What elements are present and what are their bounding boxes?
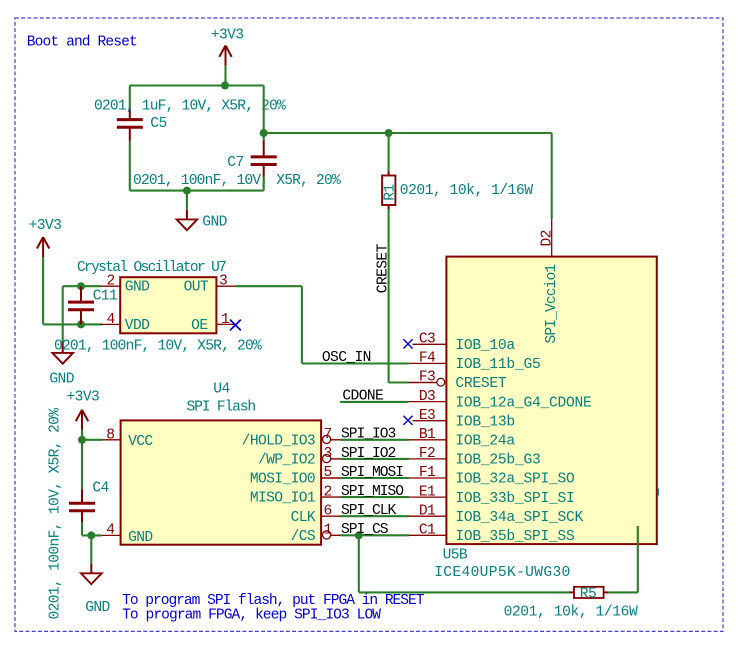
svg-text:+3V3: +3V3 (211, 28, 244, 44)
capacitor C4 (69, 503, 95, 511)
svg-text:1: 1 (324, 523, 333, 539)
svg-text:CDONE: CDONE (342, 388, 383, 404)
ground symbol (U4) (81, 573, 102, 584)
wire left vertical to C5 top (129, 86, 131, 108)
junction +3V3 / top wire (221, 82, 229, 90)
svg-text:2: 2 (324, 484, 332, 500)
U4 pin 1 /CS (323, 531, 331, 539)
svg-text:MISO_IO1: MISO_IO1 (250, 491, 316, 507)
FPGA pin D2 (551, 219, 553, 257)
svg-text:4: 4 (107, 312, 116, 328)
wire up into FPGA bottom (637, 526, 639, 592)
svg-text:2: 2 (107, 274, 115, 290)
capacitor C11 leads (80, 286, 82, 302)
FPGA pin F3 CRESET (409, 382, 437, 384)
resistor R5 (570, 591, 575, 593)
wire +3V3 to VCC rail (81, 430, 83, 440)
svg-text:IOB_24a: IOB_24a (455, 434, 515, 450)
FPGA pin F4 IOB_11b_G5 (409, 362, 447, 364)
svg-text:IOB_25b_G3: IOB_25b_G3 (455, 453, 540, 469)
FPGA pin E1 IOB_33b_SPI_SI (409, 496, 447, 498)
svg-text:OSC_IN: OSC_IN (322, 350, 371, 366)
capacitor C7 leads (263, 141, 265, 157)
wire +3V3 down to VDD rail (42, 257, 44, 324)
power symbol +3V3 (U4) (76, 410, 88, 430)
wire OSC_IN to FPGA F4 (302, 362, 409, 364)
FPGA pin C3 IOB_10a (413, 343, 447, 345)
junction SPI_CS / R5 branch (355, 531, 363, 539)
capacitor C4 leads (81, 490, 83, 504)
svg-text:SPI_IO2: SPI_IO2 (341, 446, 396, 462)
svg-text:/HOLD_IO3: /HOLD_IO3 (242, 433, 315, 449)
wire SPI net row C1 (340, 534, 408, 536)
wire GND pin2 horizontal (63, 285, 101, 287)
svg-text:Crystal Oscillator U7: Crystal Oscillator U7 (77, 260, 226, 276)
svg-text:U5B: U5B (443, 548, 468, 564)
junction GND stem / bottom rail (183, 187, 191, 195)
FPGA pin E3 IOB_13b (413, 420, 447, 422)
wire SPI net row F2 (340, 458, 408, 460)
wire R5 to right vertical (608, 591, 637, 593)
svg-text:OUT: OUT (184, 280, 209, 296)
svg-text:+3V3: +3V3 (29, 218, 62, 234)
wire C5 bottom to bottom rail (129, 141, 131, 191)
svg-text:3: 3 (324, 446, 332, 462)
U4 pin 2 MISO_IO1 (321, 496, 341, 498)
svg-text:C4: C4 (92, 480, 109, 496)
svg-text:D1: D1 (419, 503, 436, 519)
wire C4 top lead (81, 440, 83, 490)
svg-text:D3: D3 (419, 389, 435, 405)
svg-text:R1: R1 (383, 184, 399, 201)
svg-text:0201, 100nF, 10V, X5R, 20%: 0201, 100nF, 10V, X5R, 20% (54, 339, 262, 355)
svg-text:IOB_35b_SPI_SS: IOB_35b_SPI_SS (455, 529, 575, 545)
svg-text:F1: F1 (419, 465, 436, 481)
svg-text:To program FPGA, keep SPI_IO3: To program FPGA, keep SPI_IO3 LOW (122, 607, 381, 623)
U4 pin 5 MOSI_IO0 (321, 477, 341, 479)
capacitor C5 leads (129, 107, 131, 119)
svg-text:F3: F3 (419, 370, 435, 386)
FPGA pin C1 IOB_35b_SPI_SS (409, 534, 447, 536)
svg-text:3: 3 (219, 274, 227, 290)
wire +3V3 stem to node (224, 66, 226, 86)
svg-text:7: 7 (324, 427, 332, 443)
FPGA pin B1 IOB_24a (409, 439, 447, 441)
svg-text:VDD: VDD (125, 318, 150, 334)
svg-text:8: 8 (106, 427, 114, 443)
FPGA pin F1 IOB_32a_SPI_SO (409, 477, 447, 479)
svg-text:C11: C11 (93, 288, 118, 304)
svg-text:E3: E3 (419, 408, 435, 424)
capacitor C5 (117, 120, 143, 128)
junction C11 bottom / VDD wire (77, 320, 85, 328)
wire to FPGA pin D2 (551, 133, 553, 219)
svg-text:IOB_12a_G4_CDONE: IOB_12a_G4_CDONE (455, 395, 591, 411)
wire main horizontal CRESET rail (264, 132, 552, 134)
wire C7 bottom to bottom rail (263, 177, 265, 191)
svg-text:C7: C7 (227, 155, 243, 171)
junction C7 / main horizontal wire (260, 129, 268, 137)
U4 pin 4 GND (102, 534, 121, 536)
oscillator U7 body (120, 277, 216, 333)
svg-text:ICE40UP5K-UWG30: ICE40UP5K-UWG30 (434, 565, 570, 581)
no-connect X on U7 OE (230, 320, 241, 331)
svg-text:+3V3: +3V3 (67, 390, 100, 406)
svg-text:IOB_13b: IOB_13b (455, 414, 515, 430)
FPGA pin F2 IOB_25b_G3 (409, 458, 447, 460)
svg-text:B1: B1 (419, 427, 436, 443)
svg-text:GND: GND (125, 280, 150, 296)
svg-text:0201, 100nF, 10V, X5R, 20%: 0201, 100nF, 10V, X5R, 20% (47, 408, 63, 620)
svg-text:R5: R5 (580, 586, 596, 602)
svg-text:GND: GND (85, 600, 110, 616)
svg-text:IOB_33b_SPI_SI: IOB_33b_SPI_SI (455, 491, 574, 507)
SPI flash U4 body (121, 420, 322, 544)
junction C11 top / pin2 wire (77, 282, 85, 290)
no-connect X on FPGA C3 (403, 339, 412, 348)
svg-text:D2: D2 (539, 230, 555, 246)
resistor R1 (388, 172, 390, 177)
power symbol +3V3 (oscillator) (37, 237, 49, 257)
wire OSC_IN vertical (301, 286, 303, 363)
FPGA pin D1 IOB_34a_SPI_SCK (409, 515, 447, 517)
junction C4 top / VCC wire (78, 436, 86, 444)
U7 pin 2 GND (101, 285, 120, 287)
svg-text:1: 1 (221, 312, 230, 328)
svg-text:SPI_CLK: SPI_CLK (341, 503, 397, 519)
wire top horizontal C5-C7 (130, 84, 264, 86)
svg-text:MOSI_IO0: MOSI_IO0 (250, 472, 315, 488)
svg-text:CLK: CLK (291, 510, 316, 526)
wire GND stem (186, 191, 188, 211)
wire SPI net row F1 (340, 477, 408, 479)
U4 pin 6 CLK (321, 515, 341, 517)
wire SPI net row B1 (340, 439, 408, 441)
wire bottom horizontal to R5 (359, 591, 570, 593)
ground symbol (top loop) (177, 219, 198, 230)
wire right vertical to C7 (263, 86, 265, 142)
svg-text:SPI_MOSI: SPI_MOSI (341, 465, 403, 481)
svg-text:0201, 10k, 1/16W: 0201, 10k, 1/16W (400, 183, 533, 199)
svg-text:U4: U4 (213, 382, 230, 398)
U7 pin 4 VDD (101, 323, 120, 325)
svg-text:IOB_11b_G5: IOB_11b_G5 (455, 357, 540, 373)
wire bottom horizontal rail (130, 190, 264, 192)
wire VCC horizontal (82, 439, 102, 441)
svg-text:SPI_MISO: SPI_MISO (341, 484, 404, 500)
svg-text:GND: GND (202, 215, 227, 231)
wire CRESET to FPGA F3 pin (389, 381, 409, 383)
wire OUT to corner (236, 285, 302, 287)
svg-text:C3: C3 (419, 332, 435, 348)
U4 pin 8 VCC (102, 439, 121, 441)
svg-text:E1: E1 (419, 484, 436, 500)
wire SPI net row E1 (340, 496, 408, 498)
svg-text:0201, 1uF, 10V, X5R, 20%: 0201, 1uF, 10V, X5R, 20% (94, 99, 286, 115)
wire C4 bottom lead (81, 522, 83, 535)
no-connect X on FPGA E3 (403, 416, 412, 425)
FPGA U5B body (446, 257, 656, 544)
svg-text:GND: GND (49, 371, 74, 387)
pin stub tick on FPGA right edge (657, 489, 659, 496)
svg-text:C5: C5 (150, 116, 166, 132)
svg-text:Boot and Reset: Boot and Reset (27, 34, 137, 50)
wire SPI_CS down to R5 rail (358, 535, 360, 592)
FPGA pin D3 IOB_12a_G4_CDONE (409, 401, 447, 403)
U4 pin 7 /HOLD_IO3 (323, 435, 331, 443)
svg-text:CRESET: CRESET (376, 243, 392, 293)
junction R1 / main wire (385, 129, 393, 137)
svg-text:IOB_10a: IOB_10a (455, 338, 515, 354)
svg-text:C1: C1 (419, 523, 436, 539)
wire SPI net row D1 (340, 515, 408, 517)
wire CRESET vertical (388, 209, 390, 383)
capacitor C7 (251, 157, 277, 165)
junction GND stem / C4 wire (87, 531, 95, 539)
svg-text:SPI_IO3: SPI_IO3 (341, 427, 396, 443)
svg-text:OE: OE (191, 318, 207, 334)
wire R1 top lead (388, 133, 390, 172)
wire GND stem (U4) (90, 535, 92, 564)
svg-text:SPI_Vccio1: SPI_Vccio1 (544, 264, 560, 344)
svg-text:6: 6 (324, 503, 332, 519)
svg-text:F4: F4 (419, 351, 436, 367)
ground symbol (top loop) stem (186, 210, 188, 219)
svg-text:GND: GND (128, 530, 153, 546)
svg-text:VCC: VCC (128, 434, 153, 450)
svg-text:0201, 100nF, 10V, X5R, 20%: 0201, 100nF, 10V, X5R, 20% (133, 173, 341, 189)
wire VDD horizontal (43, 323, 102, 325)
svg-text:SPI_CS: SPI_CS (341, 522, 389, 538)
svg-text:CRESET: CRESET (455, 376, 507, 392)
capacitor C11 (68, 302, 94, 310)
U7 pin 3 OUT (216, 285, 236, 287)
svg-text:/WP_IO2: /WP_IO2 (258, 453, 315, 469)
svg-text:IOB_34a_SPI_SCK: IOB_34a_SPI_SCK (455, 510, 583, 526)
power symbol +3V3 (top) (219, 46, 231, 66)
svg-text:0201, 10k, 1/16W: 0201, 10k, 1/16W (504, 605, 638, 621)
svg-text:4: 4 (106, 523, 115, 539)
svg-text:SPI Flash: SPI Flash (187, 399, 256, 415)
svg-text:/CS: /CS (291, 529, 316, 545)
wire to U4 GND pin (82, 534, 102, 536)
svg-text:IOB_32a_SPI_SO: IOB_32a_SPI_SO (455, 472, 575, 488)
wire CDONE to FPGA D3 (340, 401, 409, 403)
wire down to ground (oscillator) (62, 286, 64, 343)
U4 pin 3 /WP_IO2 (323, 454, 331, 462)
U7 pin 1 OE (216, 323, 235, 325)
ground symbol (oscillator) stem (62, 342, 64, 353)
svg-text:F2: F2 (419, 446, 435, 462)
ground symbol (oscillator) (52, 353, 73, 364)
svg-text:5: 5 (324, 465, 332, 481)
ground symbol (U4) stem (90, 564, 92, 573)
